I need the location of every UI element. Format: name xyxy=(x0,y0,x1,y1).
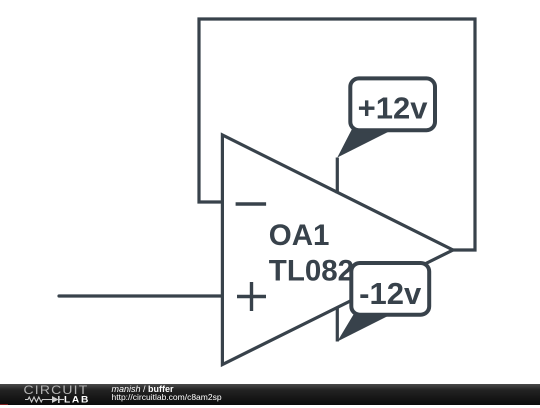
wire V- pin of OA1 xyxy=(336,308,339,342)
op-amp OA1 triangle body xyxy=(222,135,453,365)
svg-text:OA1: OA1 xyxy=(269,219,330,252)
svg-text:-12v: -12v xyxy=(359,276,422,311)
red progress sliver xyxy=(0,404,8,405)
wire input to non-inverting input xyxy=(59,294,222,297)
op-amp OA1 inverting input minus symbol xyxy=(236,202,267,205)
wire feedback loop: output to inverting input xyxy=(199,19,475,250)
resistor + diode glyph xyxy=(25,397,64,402)
power flag -12v bubble xyxy=(351,263,429,315)
svg-text:+12v: +12v xyxy=(358,91,429,126)
power flag -12v tail xyxy=(337,312,389,342)
svg-text:LAB: LAB xyxy=(64,395,90,404)
power flag +12v tail xyxy=(337,129,391,158)
footer bar xyxy=(0,384,540,405)
op-amp OA1 non-inverting input plus symbol xyxy=(237,282,266,311)
label OA1 (name of op-amp) xyxy=(269,219,330,252)
CircuitLab logo xyxy=(23,383,98,408)
wire V+ pin of OA1 xyxy=(336,158,339,194)
attribution text xyxy=(0,383,540,385)
svg-text:TL082: TL082 xyxy=(269,254,354,287)
value label TL082 xyxy=(269,254,354,287)
power flag +12v bubble xyxy=(350,78,435,130)
